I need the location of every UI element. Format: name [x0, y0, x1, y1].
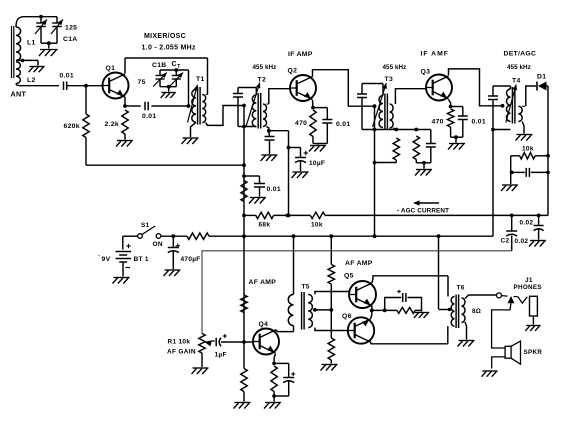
svg-text:0.02: 0.02	[520, 220, 534, 227]
svg-text:1µF: 1µF	[215, 352, 227, 359]
svg-text:Q1: Q1	[106, 65, 116, 72]
svg-text:10k: 10k	[522, 146, 534, 153]
svg-text:L1: L1	[27, 40, 36, 47]
svg-text:T1: T1	[196, 76, 205, 83]
svg-text:AF AMP: AF AMP	[345, 260, 373, 267]
svg-text:SPKR: SPKR	[524, 349, 543, 356]
svg-text:-: -	[98, 253, 100, 259]
svg-text:8Ω: 8Ω	[472, 308, 481, 315]
svg-text:620k: 620k	[64, 123, 80, 130]
svg-text:T: T	[177, 64, 180, 70]
svg-text:455 kHz: 455 kHz	[253, 64, 277, 71]
svg-text:T2: T2	[258, 76, 267, 83]
svg-text:68k: 68k	[259, 222, 271, 229]
svg-text:470: 470	[432, 119, 444, 126]
svg-text:0.01: 0.01	[336, 121, 350, 128]
svg-text:MIXER/OSC: MIXER/OSC	[144, 33, 186, 40]
svg-text:T4: T4	[512, 78, 521, 85]
svg-text:Q2: Q2	[288, 68, 298, 75]
svg-text:125: 125	[65, 24, 77, 31]
svg-text:0.01: 0.01	[60, 73, 74, 80]
svg-text:IF AMF: IF AMF	[421, 51, 449, 58]
svg-text:0.02: 0.02	[515, 238, 529, 245]
svg-text:9V: 9V	[102, 256, 111, 263]
svg-text:Q3: Q3	[421, 69, 431, 76]
svg-text:T6: T6	[457, 285, 465, 292]
svg-text:C1A: C1A	[63, 36, 78, 43]
svg-text:ON: ON	[153, 241, 163, 248]
svg-text:ANT: ANT	[11, 90, 27, 99]
svg-text:L2: L2	[27, 77, 36, 84]
svg-text:Q5: Q5	[344, 273, 354, 280]
svg-text:C2: C2	[501, 238, 510, 245]
svg-text:AF GAIN: AF GAIN	[167, 349, 196, 356]
svg-text:R1 10k: R1 10k	[168, 339, 191, 346]
svg-text:470: 470	[295, 120, 307, 127]
svg-text:S1: S1	[141, 222, 150, 229]
svg-text:Q6: Q6	[342, 313, 352, 320]
svg-text:0.01: 0.01	[267, 186, 281, 193]
svg-text:2.2k: 2.2k	[105, 121, 119, 128]
svg-text:455 kHz: 455 kHz	[507, 64, 531, 71]
svg-text:0.01: 0.01	[472, 119, 486, 126]
svg-text:- AGC CURRENT: - AGC CURRENT	[397, 208, 449, 215]
svg-text:Q4: Q4	[259, 321, 269, 328]
svg-text:IF AMP: IF AMP	[288, 51, 313, 58]
svg-text:BT 1: BT 1	[134, 256, 149, 263]
svg-text:DET/AGC: DET/AGC	[504, 51, 537, 58]
svg-text:J1: J1	[525, 277, 533, 284]
svg-text:D1: D1	[537, 74, 546, 81]
svg-text:T3: T3	[385, 76, 394, 83]
svg-text:0.01: 0.01	[142, 113, 156, 120]
svg-text:10k: 10k	[311, 222, 323, 229]
svg-text:T5: T5	[302, 284, 310, 291]
svg-text:C1B: C1B	[152, 62, 167, 69]
svg-text:PHONES: PHONES	[514, 284, 542, 291]
svg-text:10µF: 10µF	[309, 160, 325, 167]
svg-text:470µF: 470µF	[181, 256, 201, 263]
svg-text:455 kHz: 455 kHz	[383, 64, 407, 71]
svg-text:75: 75	[138, 79, 146, 86]
svg-text:C: C	[172, 61, 177, 68]
svg-text:AF AMP: AF AMP	[249, 279, 277, 286]
svg-text:1.0 - 2.055 MHz: 1.0 - 2.055 MHz	[142, 45, 196, 52]
